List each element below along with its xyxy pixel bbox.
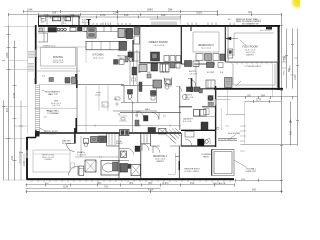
corridor lower fixtures y77-90: [153, 78, 232, 93]
bath/cab column fixtures x128-142 y41-92: [125, 50, 142, 92]
great room ceiling lines: [86, 85, 108, 133]
dark appliance: [78, 27, 83, 31]
svg-text:584: 584: [168, 7, 173, 11]
tick marks on dimension lines: [2, 10, 299, 193]
left mid wall dark segment: [75, 118, 77, 133]
door arc master: [67, 144, 75, 152]
powder room: [121, 84, 138, 103]
right side tiny window labels: [284, 57, 292, 75]
left dimension vline 3: [14, 41, 16, 181]
svg-text:12x12: 12x12: [95, 94, 101, 96]
dark appliance: [148, 128, 156, 134]
great room sparse symbols: [96, 93, 120, 108]
door band ticks: [219, 139, 234, 141]
svg-text:461: 461: [248, 10, 253, 14]
flex room inner line: [227, 26, 229, 62]
svg-text:1176: 1176: [256, 99, 262, 102]
svg-text:WALL TYP: WALL TYP: [48, 93, 59, 96]
diagonal shelving: [166, 128, 182, 144]
svg-text:CABS: CABS: [118, 57, 124, 60]
laundry right wall: [215, 86, 217, 147]
flex corner dark mark: [266, 27, 272, 30]
left extension of top wall: [4, 25, 37, 27]
right wing bottom wall lighter continuation: [196, 88, 214, 90]
svg-text:DINING 11-0: DINING 11-0: [43, 46, 56, 48]
svg-text:(30): (30): [97, 182, 101, 185]
svg-text:W/ OWNER TYP: W/ OWNER TYP: [242, 24, 259, 26]
master bath fixtures x60-119 y133-178: [67, 133, 131, 176]
bed2 right wall: [180, 133, 182, 146]
top extension verticals: [9, 12, 218, 26]
hall wall y111: [113, 110, 157, 112]
svg-text:362: 362: [247, 95, 252, 98]
tick y125.5: [15, 125, 28, 127]
left wing wall corner jog: [27, 130, 36, 138]
window mullion ticks above top wall: [85, 19, 234, 26]
bath3 left wall: [118, 133, 120, 179]
bedroom3 label: [198, 44, 214, 50]
yellow sticker corner: [289, 0, 305, 10]
master bath left wall: [74, 128, 76, 144]
svg-text:(36): (36): [148, 182, 152, 185]
patio doorway note: [184, 169, 200, 173]
top exterior wall: [38, 25, 280, 27]
svg-text:8-0 x 9-0: 8-0 x 9-0: [183, 121, 192, 123]
vertical ext x227.3: [227, 85, 229, 97]
extra corridor clutter: [147, 74, 216, 112]
bath2/laundry divider: [179, 106, 216, 108]
master bed rect: [33, 150, 75, 172]
bath3 divider: [119, 149, 129, 161]
short line y99: [217, 99, 231, 101]
left tick y69: [9, 69, 28, 71]
svg-text:TILE: TILE: [185, 99, 190, 101]
shower: [85, 160, 96, 172]
smudge marks: [19, 151, 22, 164]
svg-text:1420: 1420: [294, 74, 297, 80]
svg-text:16-0 SLIDER: 16-0 SLIDER: [228, 133, 241, 135]
svg-text:SHELF: SHELF: [116, 143, 123, 145]
laundry left wall: [179, 86, 181, 130]
stacked dark fixtures: [132, 67, 137, 75]
corner counter: [38, 27, 44, 33]
flex bottom wall: [225, 61, 280, 63]
svg-text:942: 942: [252, 189, 257, 192]
powder room fixtures: [128, 90, 134, 105]
svg-text:GREAT ROOM: GREAT ROOM: [149, 40, 169, 44]
hall details y103-133: [119, 111, 159, 126]
kitchen-dining boundary: [37, 46, 86, 48]
window gap in laundry right wall: [215, 99, 217, 106]
svg-text:2134: 2134: [13, 92, 16, 98]
svg-text:584: 584: [261, 95, 266, 98]
dark block at hatch bottom: [36, 131, 39, 137]
svg-text:LIN: LIN: [147, 72, 151, 74]
flex room inner tray lines: [234, 33, 274, 56]
svg-text:OWNER: OWNER: [44, 159, 52, 161]
beam line y71: [36, 70, 80, 72]
svg-text:DOOR + INFILL: DOOR + INFILL: [185, 171, 201, 173]
right horizontal line y145: [241, 144, 298, 146]
left tick y138: [4, 138, 27, 140]
bed2 entry wall: [151, 145, 182, 147]
room label text blobs: [42, 40, 258, 173]
svg-text:584: 584: [241, 179, 246, 182]
left tick y106: [4, 106, 28, 108]
svg-text:INSUL: INSUL: [82, 22, 89, 24]
powder2 toilet: [165, 79, 171, 84]
left room wall vertical: [76, 47, 78, 118]
svg-text:9-0 CLG: 9-0 CLG: [52, 105, 60, 107]
corridor mid text row y70-76: [135, 71, 224, 75]
hall vline x132.5: [132, 103, 134, 133]
svg-text:2146: 2146: [113, 11, 119, 15]
svg-text:914: 914: [190, 182, 195, 185]
svg-text:1172: 1172: [100, 13, 106, 17]
tall cabinet column wall: [132, 40, 134, 62]
left tick y60: [9, 60, 28, 62]
left lower cab: [44, 33, 48, 42]
den text blocks: [43, 101, 62, 136]
laundry fixtures x180-216 y107-146: [185, 96, 227, 146]
great room bottom wall: [139, 62, 181, 64]
dense note text above right top wall: [228, 18, 262, 26]
bottom wall hatch ticks: [32, 181, 230, 182]
door arc: [142, 144, 149, 151]
ladder hatch strip (bearing wall section): [28, 52, 40, 137]
left dimension vline 1: [3, 101, 5, 181]
closet right of powder: [121, 85, 157, 102]
great room right wall: [180, 26, 182, 64]
svg-text:918: 918: [161, 13, 166, 17]
right dim line y101: [245, 101, 282, 103]
svg-text:7-0 CLG: 7-0 CLG: [189, 73, 197, 75]
hall dark blobs lower-left: [151, 91, 157, 96]
svg-text:1846: 1846: [6, 52, 9, 58]
island dense cluster: [87, 28, 96, 38]
svg-text:PATIO: PATIO: [203, 155, 209, 158]
svg-text:OPENING: OPENING: [46, 133, 56, 135]
dimension text blobs: [27, 7, 266, 191]
bedroom3 tray ceiling rect: [191, 26, 219, 52]
svg-text:WOOD FLR: WOOD FLR: [53, 62, 64, 64]
laundry top wall: [181, 129, 216, 131]
corridor fixtures row y62-73: [139, 61, 223, 73]
closet shelves right: [107, 133, 120, 146]
lower strip fixtures: [49, 78, 54, 82]
svg-text:CARPET: CARPET: [246, 54, 255, 57]
svg-text:762: 762: [104, 186, 109, 189]
left dimension vline 4: [20, 101, 22, 181]
great room south wall media cluster: [151, 52, 225, 100]
kitchen back line: [139, 26, 141, 62]
right exterior wall: [278, 25, 280, 90]
bedroom2 right wall: [168, 146, 179, 179]
svg-text:610: 610: [124, 13, 129, 17]
svg-text:(24): (24): [129, 182, 133, 185]
bottom dim line y184.5: [26, 184, 235, 186]
tiny text in upper block: [41, 19, 67, 26]
svg-text:FOYER: FOYER: [207, 72, 215, 74]
svg-text:12-6 x 14: 12-6 x 14: [62, 143, 72, 145]
dark flag above wall x88: [87, 19, 92, 26]
svg-text:CARPET: CARPET: [156, 160, 165, 163]
svg-text:KITCHEN: KITCHEN: [93, 54, 104, 57]
svg-text:30 DR: 30 DR: [135, 72, 141, 74]
laundry bottom wall: [181, 145, 216, 147]
covered patio bottom rect: [212, 149, 234, 175]
inner dim line y113.8: [226, 113, 246, 115]
svg-text:HALL: HALL: [145, 108, 151, 111]
flex arrow note: [226, 37, 238, 40]
bell circle: [217, 127, 219, 129]
hall closet band y126-146: [120, 128, 182, 152]
right dim arrow line x290: [290, 102, 292, 146]
bottom dim line y180 right: [235, 180, 282, 182]
burners circles: [57, 28, 60, 31]
left extension of bottom wall: [4, 179, 27, 181]
fireplace block: [75, 74, 77, 81]
top dimension line 3: [39, 16, 181, 18]
toilet: [84, 139, 89, 144]
kitchen island long: [86, 41, 126, 50]
right extension x244: [244, 102, 246, 145]
left wall window block: [35, 78, 37, 84]
upper projecting block outline: [39, 16, 80, 26]
counters mid: [84, 27, 94, 32]
small dark block WH: [135, 146, 140, 152]
arrowhead on x290 line: [290, 120, 292, 123]
dining rug rect: [41, 48, 76, 67]
vanity cluster left: [120, 130, 130, 136]
upper block window details: [41, 17, 71, 22]
bath3 fixtures x119-141 y148-178: [120, 149, 141, 176]
leader lines and misc: [40, 40, 247, 168]
svg-text:914: 914: [52, 10, 57, 14]
bedroom2 left wall: [140, 133, 142, 179]
tub: [101, 161, 119, 176]
covered patio hatch ticks on top edge: [231, 63, 273, 65]
svg-text:11-0 x 12-4: 11-0 x 12-4: [201, 48, 212, 50]
wc fixture: [79, 166, 84, 176]
master bath divider: [80, 136, 82, 157]
bottom dim line y188: [26, 188, 161, 190]
left exterior wall lower: [26, 137, 28, 180]
entry bottom wall w/ gap: [181, 63, 215, 65]
crosshatch rect: [159, 129, 167, 135]
ceiling line y125.5: [77, 125, 181, 127]
svg-text:2X6 FASCIA: 2X6 FASCIA: [213, 182, 226, 185]
vanities top: [91, 137, 98, 143]
svg-text:COVERED PATIO: COVERED PATIO: [245, 65, 262, 68]
built-ins row bedroom3 bottom: [196, 54, 203, 61]
svg-text:TILE FLR: TILE FLR: [77, 154, 86, 156]
bedroom2 right wall: [150, 133, 152, 146]
svg-text:4164: 4164: [148, 189, 154, 192]
mud door arc: [205, 139, 211, 145]
right dimension vline x292: [292, 29, 294, 89]
svg-text:DINING: DINING: [53, 55, 63, 59]
range dark: [48, 28, 57, 33]
sink cab: [70, 28, 76, 32]
svg-text:FLEX ROOM: FLEX ROOM: [242, 45, 257, 49]
svg-text:16-6 x 12-0: 16-6 x 12-0: [93, 57, 104, 59]
top dimension line 2: [9, 14, 282, 16]
right extension x272: [272, 65, 274, 98]
left room window block: [76, 80, 78, 88]
svg-text:TO REMAIN: TO REMAIN: [47, 112, 59, 115]
entry side wall: [195, 64, 197, 88]
bottom exterior wall: [27, 178, 235, 180]
top dimension line 1: [24, 11, 218, 13]
wall oven col: [134, 36, 140, 44]
bottom dim line y191: [26, 191, 282, 193]
column vertical lines: [130, 50, 137, 85]
svg-text:1546: 1546: [27, 9, 33, 12]
closet wall bed2: [141, 143, 151, 145]
corridor wall h y85.3: [77, 84, 124, 86]
right dim line y97: [218, 96, 298, 98]
right area small ticks: [240, 126, 246, 151]
svg-text:FURR OUT: FURR OUT: [246, 171, 257, 173]
flex niche detail: [228, 49, 233, 58]
patio left wall dark: [211, 149, 213, 175]
svg-text:1184: 1184: [63, 186, 69, 189]
den wall lines: [34, 85, 77, 109]
svg-text:3103: 3103: [196, 10, 202, 14]
svg-text:(2-26): (2-26): [162, 182, 169, 185]
lower wing top wall: [36, 132, 181, 134]
fridge/tall cabinets dark right: [118, 29, 125, 38]
slider leader: [228, 135, 236, 141]
left exterior wall upper: [35, 25, 37, 84]
svg-text:2-8 CSD: 2-8 CSD: [161, 72, 169, 74]
cabinet row along great room bottom: [164, 56, 169, 62]
door band right of laundry: [218, 139, 237, 141]
water closet door arc: [69, 166, 79, 176]
svg-text:916: 916: [290, 130, 293, 135]
svg-text:16-0 x 19-8: 16-0 x 19-8: [154, 45, 165, 47]
left extension line: [27, 12, 29, 134]
counter line: [38, 31, 133, 33]
right wing bottom wall: [214, 88, 283, 90]
left dimension vline 2: [8, 26, 10, 181]
bath2 upper right x180-216 y86-107: [183, 87, 214, 100]
bedroom2 interior: [144, 134, 160, 154]
svg-text:BEDROOM 3: BEDROOM 3: [198, 44, 214, 47]
window hatch lower-left wall: [26, 150, 28, 158]
flex room left wall: [224, 26, 226, 62]
covered patio right wing rect: [229, 63, 278, 88]
svg-text:W: W: [41, 19, 43, 21]
exterior ladder hatches left of wall: [28, 52, 34, 58]
svg-text:2845: 2845: [147, 7, 153, 11]
svg-text:914: 914: [6, 107, 9, 112]
svg-text:9-0 CLG TYP: 9-0 CLG TYP: [260, 30, 273, 32]
right dimension vline x286: [286, 29, 288, 89]
right dimension vline x281: [281, 15, 283, 192]
svg-text:316: 316: [11, 155, 14, 160]
left wall window break: [35, 50, 37, 58]
right dimension vline x297: [297, 29, 299, 146]
hall wall y112.5: [120, 112, 181, 114]
